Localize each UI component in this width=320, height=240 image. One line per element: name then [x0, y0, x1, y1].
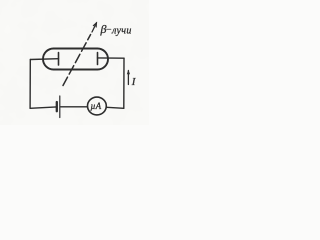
svg-text:лучи: лучи: [111, 26, 132, 37]
svg-text:–: –: [106, 24, 112, 34]
svg-text:µA: µA: [90, 101, 101, 111]
svg-text:β: β: [100, 22, 107, 36]
